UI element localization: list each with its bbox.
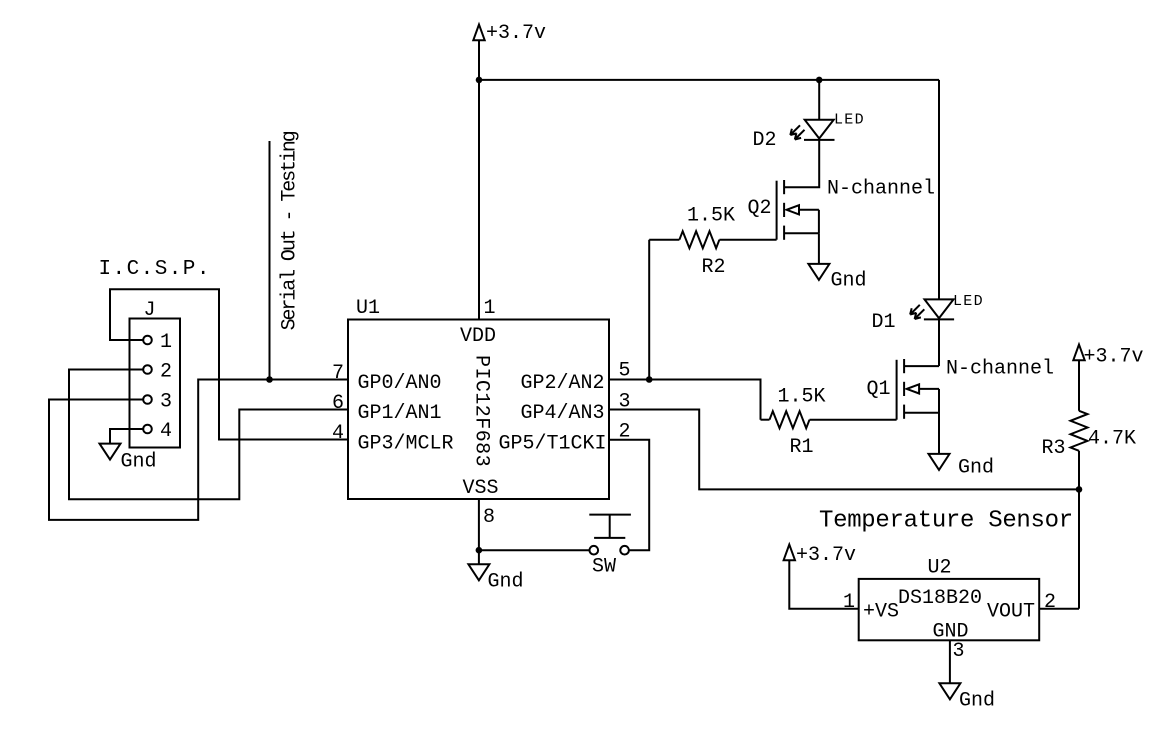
wire U2 VOUT pin 2	[1039, 608, 1079, 610]
svg-text:Temperature Sensor: Temperature Sensor	[819, 508, 1073, 535]
node junction GP2/R2	[646, 376, 653, 383]
svg-text:3: 3	[160, 391, 172, 414]
wire D1 anode vertical from top rail	[938, 80, 940, 300]
wire GP4/AN3 pin 3 net to temperature sensor	[609, 410, 1079, 490]
svg-text:LED: LED	[834, 112, 865, 129]
power +3.7v at R3	[1073, 345, 1143, 369]
svg-text:D1: D1	[872, 311, 896, 334]
svg-text:GP5/T1CKI: GP5/T1CKI	[499, 432, 607, 455]
transistor Q1 N-channel MOSFET	[867, 357, 1055, 419]
ground Q2	[808, 264, 866, 293]
svg-text:8: 8	[483, 506, 495, 529]
resistor R3 4.7K	[1042, 360, 1137, 489]
svg-text:R1: R1	[790, 436, 814, 459]
op-amp U1 PIC12F683 body	[348, 297, 609, 500]
wire connector pin 1 to GP3/MCLR	[110, 289, 348, 439]
LED D1	[872, 293, 984, 334]
wire D1 cathode to Q1 drain	[938, 319, 940, 366]
wire top rail horizontal	[479, 79, 939, 81]
svg-text:3: 3	[953, 640, 965, 663]
power +3.7v at U2	[784, 544, 856, 567]
wire connector pin 2 to GP1/AN1	[69, 370, 348, 500]
connector J I.C.S.P. header	[99, 258, 211, 448]
svg-text:+3.7v: +3.7v	[1084, 346, 1144, 369]
node junction VSS/switch	[476, 547, 483, 554]
node junction serial/GP0	[266, 376, 273, 383]
resistor R1 1.5K	[761, 386, 897, 460]
svg-text:5: 5	[619, 360, 631, 383]
op-amp U2 DS18B20 body	[859, 557, 1039, 644]
svg-text:2: 2	[160, 361, 172, 384]
svg-text:D2: D2	[753, 129, 777, 152]
svg-text:Gnd: Gnd	[831, 270, 867, 293]
svg-text:3: 3	[619, 391, 631, 414]
svg-text:GP4/AN3: GP4/AN3	[521, 402, 605, 425]
svg-text:GP2/AN2: GP2/AN2	[521, 372, 605, 395]
svg-text:6: 6	[332, 392, 344, 415]
switch SW push button	[589, 515, 631, 579]
svg-text:GP1/AN1: GP1/AN1	[358, 402, 442, 425]
svg-text:4: 4	[160, 420, 172, 443]
svg-text:+3.7v: +3.7v	[796, 544, 856, 567]
svg-text:Serial Out - Testing: Serial Out - Testing	[279, 131, 302, 330]
node junction R3/VOUT	[1076, 486, 1083, 493]
svg-text:4.7K: 4.7K	[1088, 428, 1136, 451]
wire R3 junction down to VOUT	[1078, 489, 1080, 608]
svg-text:J: J	[144, 299, 156, 322]
svg-text:Gnd: Gnd	[958, 457, 994, 480]
svg-text:2: 2	[1044, 591, 1056, 614]
wire GP5/T1CKI pin 2 to switch	[609, 440, 649, 551]
wire R2 down to GP2 net	[648, 240, 650, 380]
svg-text:1.5K: 1.5K	[687, 205, 735, 228]
svg-text:7: 7	[332, 362, 344, 385]
wire VDD vertical from +3.7v to U1 pin 1	[478, 40, 480, 320]
svg-text:SW: SW	[592, 556, 616, 579]
svg-text:GP0/AN0: GP0/AN0	[358, 372, 442, 395]
wire Q2 source to ground	[818, 233, 820, 264]
svg-text:I.C.S.P.: I.C.S.P.	[99, 258, 211, 281]
svg-text:Q1: Q1	[867, 378, 891, 401]
wire VSS pin 8 vertical	[478, 499, 480, 564]
wire D2 cathode to Q2 drain	[784, 140, 819, 187]
svg-text:2: 2	[619, 421, 631, 444]
wire switch to VSS net	[479, 549, 590, 551]
ground U2	[939, 683, 995, 712]
wire GP2/AN2 pin 5 net	[609, 380, 761, 420]
node junction D2 branch	[816, 77, 823, 84]
svg-text:GP3/MCLR: GP3/MCLR	[358, 432, 454, 455]
svg-text:VSS: VSS	[463, 477, 499, 500]
svg-text:VOUT: VOUT	[987, 601, 1035, 624]
svg-text:Q2: Q2	[748, 197, 772, 220]
svg-text:N-channel: N-channel	[827, 178, 935, 201]
svg-text:N-channel: N-channel	[946, 357, 1054, 380]
wire U2 GND pin 3	[949, 640, 951, 683]
svg-text:DS18B20: DS18B20	[898, 587, 982, 610]
wire connector pin 3 to GP0/AN0	[49, 380, 348, 520]
svg-text:1.5K: 1.5K	[778, 386, 826, 409]
svg-text:Gnd: Gnd	[488, 571, 524, 594]
svg-text:U2: U2	[928, 557, 952, 580]
svg-text:4: 4	[332, 422, 344, 445]
power +3.7v main rail symbol	[473, 22, 546, 45]
svg-text:R2: R2	[702, 256, 726, 279]
ground connector J	[100, 444, 157, 474]
wire D2 anode vertical	[818, 80, 820, 120]
transistor Q2 N-channel MOSFET	[748, 178, 936, 240]
svg-text:1: 1	[484, 297, 496, 320]
LED D2	[753, 112, 865, 153]
ground U1 VSS	[468, 564, 523, 593]
svg-text:U1: U1	[356, 297, 380, 320]
svg-text:R3: R3	[1042, 437, 1066, 460]
svg-text:+VS: +VS	[863, 601, 899, 624]
wire +3.7v to U2 +VS pin 1	[789, 560, 858, 609]
svg-text:1: 1	[843, 591, 855, 614]
ground Q1	[929, 454, 995, 480]
resistor R2 1.5K	[649, 205, 776, 280]
svg-text:PIC12F683: PIC12F683	[470, 355, 493, 467]
node junction at top rail	[476, 77, 483, 84]
svg-text:+3.7v: +3.7v	[486, 22, 546, 45]
wire connector pin 4 to ground	[110, 429, 143, 444]
svg-text:LED: LED	[953, 293, 984, 310]
svg-text:Gnd: Gnd	[959, 690, 995, 713]
svg-text:Gnd: Gnd	[121, 451, 157, 474]
wire Q1 source to ground	[938, 389, 940, 454]
wire serial out test point	[269, 141, 271, 380]
svg-text:VDD: VDD	[460, 325, 496, 348]
svg-text:1: 1	[160, 331, 172, 354]
